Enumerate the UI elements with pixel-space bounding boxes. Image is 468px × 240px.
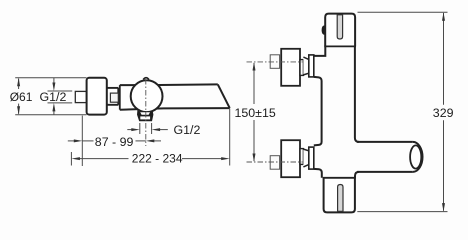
- wall nipple G1/2: [75, 91, 86, 102]
- top inlet collar: [300, 60, 303, 76]
- dimension Ø61 line upper segment with up arrow: [17, 78, 20, 89]
- svg-text:222 - 234: 222 - 234: [132, 151, 183, 165]
- valve housing bottom arm: [107, 104, 119, 106]
- top inlet small square: [270, 55, 279, 69]
- bottom inlet cover rectangle: [281, 140, 300, 177]
- centerline top inlet (dash-dot): [247, 61, 303, 63]
- outlet connector white slot: [140, 116, 150, 119]
- handle top edge: [323, 177, 356, 179]
- centerline of handle/outlet (dash-dot): [145, 79, 147, 146]
- column left outline between cap and bottom handle: [314, 46, 326, 178]
- dimension 222-234 left extension line: [70, 152, 72, 166]
- shower outlet connector (black): [137, 110, 153, 121]
- dimension G1/2 outlet right arrow pointing left: [152, 128, 168, 131]
- bottom inlet boss on body: [309, 147, 314, 169]
- dimension 222-234 line with outward arrows: [71, 157, 229, 160]
- svg-text:329: 329: [433, 106, 454, 120]
- cap bottom edge: [324, 45, 356, 47]
- bottom inlet collar: [300, 149, 303, 165]
- dimension G1/2 outlet right extension line: [151, 123, 153, 134]
- spout rounded end silhouette: [413, 142, 423, 172]
- dimension 329 bottom extension line: [357, 211, 447, 213]
- spout end face ellipse: [410, 145, 421, 168]
- dimension 329 line lower segment with down arrow: [442, 120, 445, 211]
- dimension G1/2 wall-thread upper arrow pointing down: [52, 78, 55, 91]
- spout tube top edge: [357, 141, 413, 143]
- dimension G1/2 wall-thread bottom extension line: [48, 102, 73, 104]
- dimension G1/2 wall-thread top extension line: [48, 90, 73, 92]
- handle knob circle: [131, 80, 163, 112]
- check valve cap: [110, 93, 118, 102]
- dimension 329 line upper segment with up arrow: [442, 12, 445, 105]
- svg-text:150±15: 150±15: [235, 106, 276, 120]
- bottom inlet small square: [270, 156, 279, 170]
- handle top pointer bump: [143, 78, 149, 80]
- svg-text:Ø61: Ø61: [10, 90, 33, 104]
- cap grip slot: [337, 15, 342, 39]
- bottom inlet waist (hourglass union): [303, 149, 308, 167]
- cap safety button (left dark bump): [322, 25, 325, 34]
- valve housing right edge: [117, 88, 119, 105]
- body tube left edge: [119, 85, 121, 110]
- dimension G1/2 outlet left arrow pointing right: [127, 128, 140, 131]
- centerline bottom inlet (dash-dot): [247, 161, 303, 163]
- spout tube bottom edge: [357, 171, 413, 173]
- svg-text:87 - 99: 87 - 99: [95, 135, 134, 149]
- dimension 150±15 line upper segment with up arrow: [253, 62, 256, 104]
- outlet connector white gap under handle: [140, 112, 150, 115]
- temperature cap (top handle): [325, 14, 355, 47]
- svg-text:G1/2: G1/2: [40, 90, 67, 104]
- top inlet cover rectangle: [281, 49, 300, 86]
- svg-text:G1/2: G1/2: [174, 123, 201, 137]
- dimension 87-99 extension line from wall face: [81, 116, 83, 166]
- dimension 222-234 right extension line from spout tip: [229, 109, 231, 166]
- dimension G1/2 outlet left extension line: [139, 123, 141, 134]
- column right outline from cap to spout and below spout to handle: [355, 46, 359, 178]
- body tube / spout bottom edge: [120, 108, 230, 110]
- top inlet waist (hourglass union): [303, 57, 308, 75]
- dimension 329 top extension line: [358, 11, 448, 13]
- dimension G1/2 wall-thread lower arrow pointing up: [52, 103, 55, 115]
- dimension Ø61 top extension line: [15, 77, 86, 79]
- dimension 150±15 line lower segment with down arrow: [253, 120, 256, 162]
- top inlet boss on body: [309, 55, 314, 77]
- dimension Ø61 bottom extension line: [15, 114, 86, 116]
- dimension 87-99 left arrow pointing right: [68, 139, 83, 142]
- flow handle (bottom): [324, 178, 355, 213]
- spout end slanted edge: [218, 84, 230, 108]
- dimension 87-99 right arrow pointing left: [146, 139, 161, 142]
- dimension Ø61 line lower segment with down arrow: [17, 104, 20, 115]
- valve housing top arm: [107, 87, 119, 89]
- handle grip slot: [338, 185, 343, 212]
- dimension 87-99 line stubs: [82, 140, 93, 142]
- body tube / spout top edge: [120, 83, 218, 86]
- escutcheon (wall flange): [87, 78, 107, 115]
